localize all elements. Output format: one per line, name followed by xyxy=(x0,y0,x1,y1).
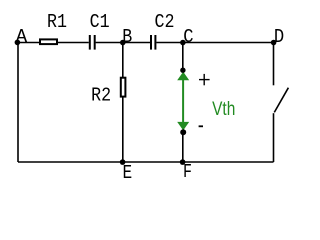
resistor R1 xyxy=(40,39,57,44)
svg-text:C: C xyxy=(183,26,193,48)
label plus xyxy=(199,74,210,85)
node B xyxy=(120,40,126,46)
wire D down to switch xyxy=(273,43,275,86)
svg-text:Vth: Vth xyxy=(212,99,235,120)
Vth arrow xyxy=(177,72,189,131)
switch blade xyxy=(274,88,288,113)
node E xyxy=(120,159,126,165)
svg-text:D: D xyxy=(274,26,284,48)
svg-text:C2: C2 xyxy=(155,11,175,33)
label minus xyxy=(199,125,203,127)
capacitor C2 xyxy=(151,35,155,50)
svg-text:R2: R2 xyxy=(91,85,111,107)
wire A to R1 xyxy=(18,42,40,44)
wire B to E xyxy=(122,43,124,163)
wire R1 to C1 xyxy=(57,42,89,44)
junction arrow top xyxy=(180,68,185,73)
wire arrow bottom to F xyxy=(182,132,184,162)
svg-text:C1: C1 xyxy=(90,11,110,33)
node D xyxy=(271,40,277,46)
wire C1 to C2 through node B xyxy=(96,42,150,44)
wire C2 to D through node C xyxy=(156,42,273,44)
node C xyxy=(180,40,186,46)
resistor R2 xyxy=(121,78,126,97)
svg-text:E: E xyxy=(123,162,133,184)
svg-text:F: F xyxy=(183,161,192,183)
capacitor C1 xyxy=(90,35,95,50)
svg-text:B: B xyxy=(122,26,132,48)
wire left side A to bottom xyxy=(17,43,19,163)
wire C down to arrow top xyxy=(182,43,184,71)
svg-text:R1: R1 xyxy=(47,11,67,33)
svg-text:A: A xyxy=(16,26,28,48)
node F xyxy=(180,159,186,165)
junction arrow bottom xyxy=(180,129,186,135)
node A xyxy=(15,40,21,46)
wire switch to bottom right xyxy=(273,113,275,162)
wire bottom E F xyxy=(18,161,274,163)
